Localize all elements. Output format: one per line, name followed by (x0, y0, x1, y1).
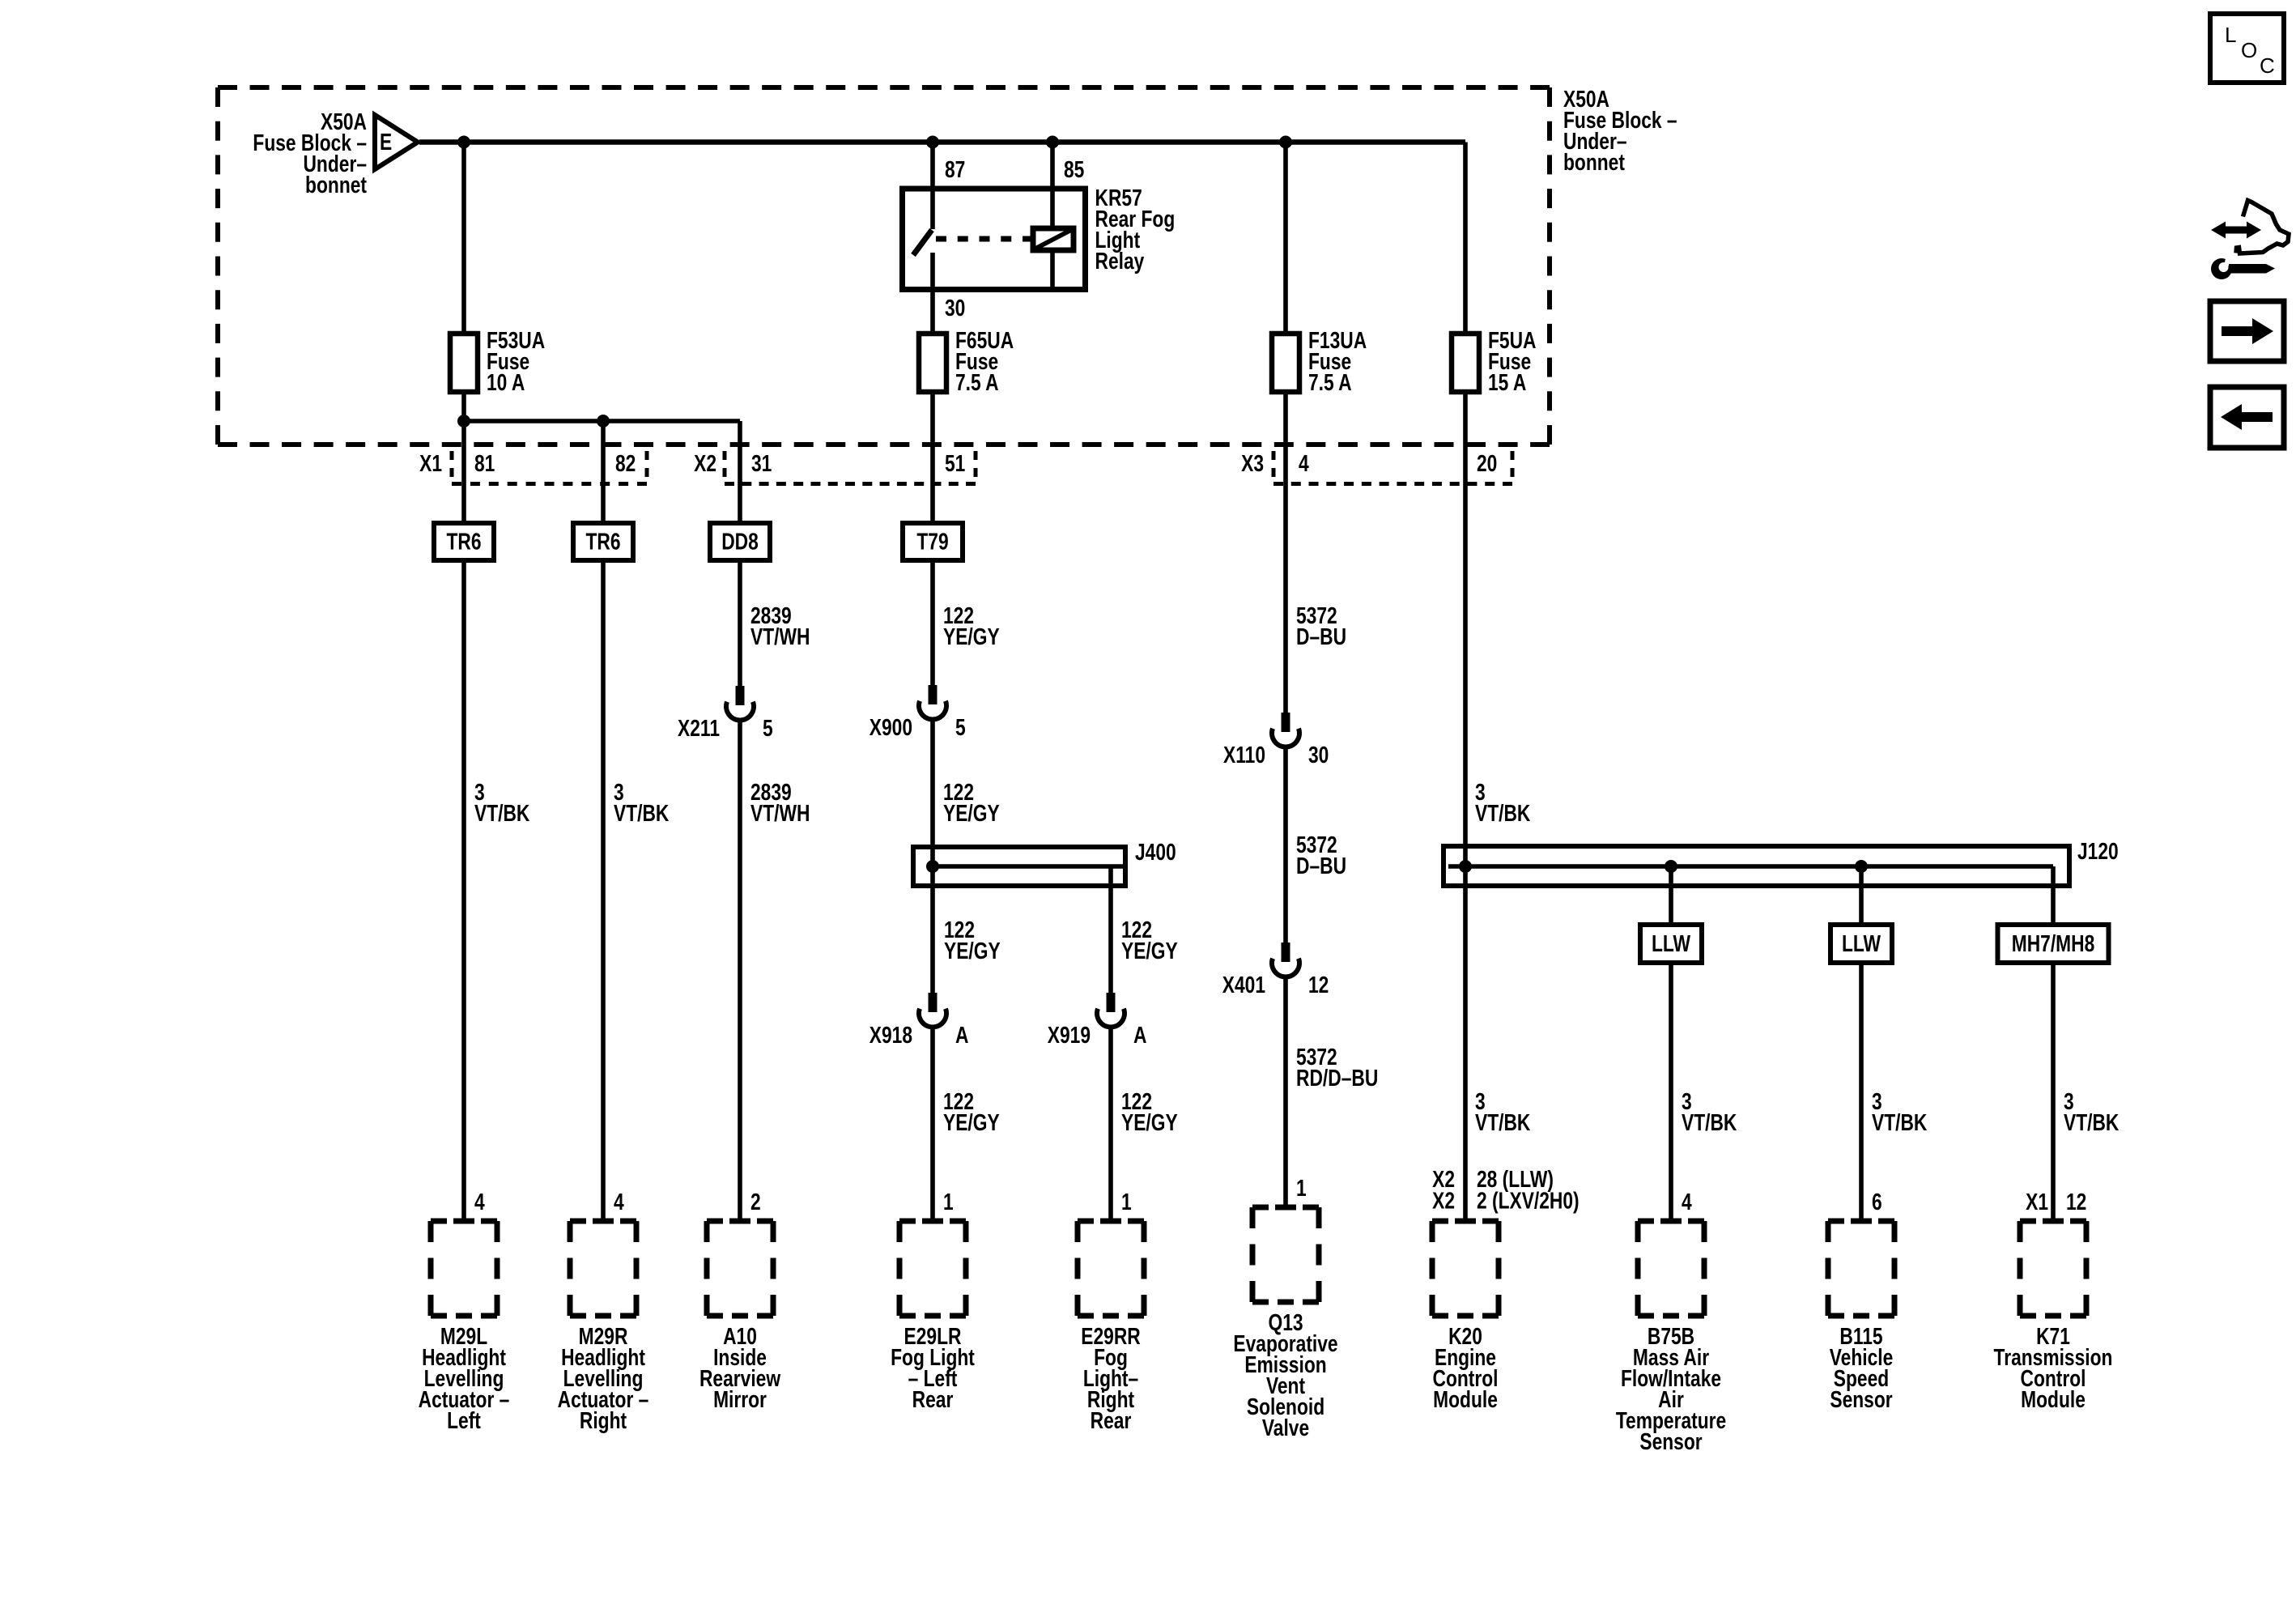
svg-text:82: 82 (615, 452, 636, 477)
svg-text:VT/WH: VT/WH (750, 802, 810, 827)
svg-text:X211: X211 (678, 717, 720, 742)
svg-text:4: 4 (1682, 1190, 1692, 1215)
svg-text:RD/D–BU: RD/D–BU (1296, 1066, 1378, 1091)
svg-text:Module: Module (1433, 1388, 1498, 1413)
svg-text:X110: X110 (1223, 743, 1265, 768)
svg-text:Sensor: Sensor (1830, 1388, 1892, 1413)
svg-text:X401: X401 (1222, 973, 1265, 998)
svg-text:2 (LXV/2H0): 2 (LXV/2H0) (1477, 1189, 1580, 1214)
svg-text:Sensor: Sensor (1639, 1430, 1702, 1455)
svg-text:VT/BK: VT/BK (2064, 1111, 2120, 1136)
svg-text:VT/BK: VT/BK (614, 802, 670, 827)
svg-text:YE/GY: YE/GY (943, 802, 1000, 827)
svg-text:MH7/MH8: MH7/MH8 (2012, 932, 2095, 957)
svg-text:1: 1 (1296, 1177, 1307, 1202)
svg-text:A: A (955, 1023, 968, 1049)
svg-text:5: 5 (763, 717, 773, 742)
svg-text:Module: Module (2021, 1388, 2086, 1413)
svg-text:VT/WH: VT/WH (750, 625, 810, 650)
svg-text:bonnet: bonnet (1563, 151, 1625, 176)
svg-text:X1: X1 (419, 452, 442, 477)
svg-text:YE/GY: YE/GY (1121, 1111, 1178, 1136)
svg-text:X900: X900 (870, 716, 912, 741)
svg-text:O: O (2241, 38, 2257, 62)
svg-text:12: 12 (1308, 973, 1329, 998)
svg-text:Right: Right (580, 1409, 627, 1434)
svg-text:Rear: Rear (1091, 1409, 1132, 1434)
svg-text:bonnet: bonnet (305, 173, 367, 198)
svg-text:VT/BK: VT/BK (1682, 1111, 1737, 1136)
svg-text:X2: X2 (1432, 1189, 1455, 1214)
svg-text:DD8: DD8 (721, 530, 759, 555)
svg-text:7.5 A: 7.5 A (1308, 371, 1352, 396)
svg-text:6: 6 (1872, 1190, 1882, 1215)
svg-text:T79: T79 (916, 530, 948, 555)
svg-text:TR6: TR6 (446, 530, 481, 555)
svg-text:J400: J400 (1135, 840, 1176, 866)
svg-text:30: 30 (1308, 743, 1329, 768)
svg-text:31: 31 (751, 452, 772, 477)
svg-text:Mirror: Mirror (713, 1388, 767, 1413)
svg-text:LLW: LLW (1652, 932, 1691, 957)
svg-text:81: 81 (474, 452, 495, 477)
svg-text:1: 1 (943, 1190, 954, 1215)
svg-text:TR6: TR6 (585, 530, 620, 555)
svg-text:Rear: Rear (912, 1388, 954, 1413)
svg-text:YE/GY: YE/GY (944, 939, 1001, 964)
svg-text:7.5 A: 7.5 A (955, 371, 999, 396)
svg-text:VT/BK: VT/BK (1872, 1111, 1928, 1136)
svg-text:4: 4 (614, 1190, 624, 1215)
svg-text:C: C (2260, 53, 2275, 78)
svg-text:Relay: Relay (1095, 249, 1145, 274)
svg-text:VT/BK: VT/BK (474, 802, 530, 827)
svg-text:D–BU: D–BU (1296, 625, 1346, 650)
svg-text:E: E (380, 130, 392, 155)
svg-text:X1: X1 (2026, 1190, 2048, 1215)
svg-text:30: 30 (945, 296, 965, 321)
svg-text:1: 1 (1121, 1190, 1132, 1215)
svg-text:X2: X2 (694, 452, 716, 477)
svg-text:51: 51 (945, 452, 965, 477)
svg-text:YE/GY: YE/GY (1121, 939, 1178, 964)
svg-text:4: 4 (1299, 452, 1309, 477)
svg-text:Left: Left (447, 1409, 481, 1434)
svg-text:5: 5 (955, 716, 966, 741)
svg-text:X918: X918 (870, 1023, 912, 1049)
svg-text:87: 87 (945, 158, 965, 183)
svg-text:J120: J120 (2077, 840, 2119, 865)
svg-text:4: 4 (474, 1190, 485, 1215)
svg-text:X919: X919 (1048, 1023, 1091, 1049)
svg-text:15 A: 15 A (1488, 371, 1526, 396)
svg-text:10 A: 10 A (487, 371, 525, 396)
svg-text:YE/GY: YE/GY (943, 1111, 1000, 1136)
svg-text:L: L (2225, 23, 2236, 47)
svg-text:12: 12 (2066, 1190, 2086, 1215)
svg-text:2: 2 (750, 1190, 761, 1215)
svg-text:VT/BK: VT/BK (1475, 1111, 1531, 1136)
svg-text:Valve: Valve (1262, 1416, 1309, 1441)
svg-text:A: A (1133, 1023, 1146, 1049)
svg-text:YE/GY: YE/GY (943, 625, 1000, 650)
svg-text:85: 85 (1064, 158, 1084, 183)
svg-text:20: 20 (1477, 452, 1497, 477)
svg-text:LLW: LLW (1842, 932, 1881, 957)
svg-text:VT/BK: VT/BK (1475, 802, 1531, 827)
svg-text:X3: X3 (1241, 452, 1264, 477)
svg-text:D–BU: D–BU (1296, 854, 1346, 879)
